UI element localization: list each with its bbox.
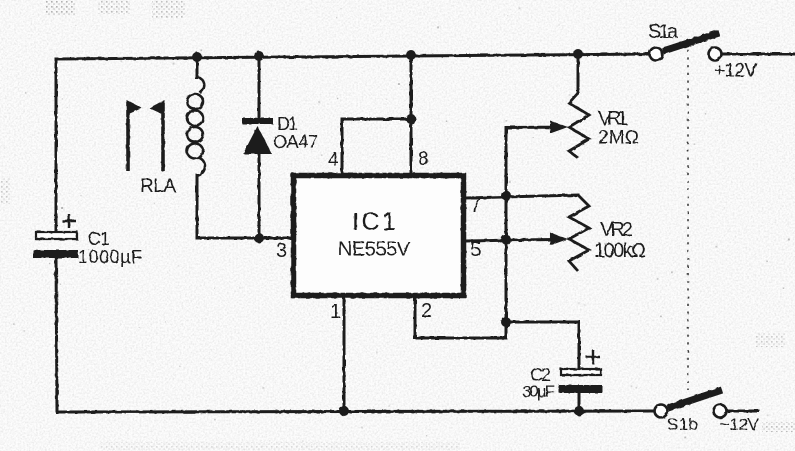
svg-text:−12V: −12V bbox=[720, 415, 760, 434]
svg-text:VR2: VR2 bbox=[600, 219, 633, 241]
svg-text:OA47: OA47 bbox=[273, 132, 318, 152]
svg-text:C1: C1 bbox=[88, 229, 110, 249]
svg-text:7: 7 bbox=[470, 195, 481, 217]
svg-text:+12V: +12V bbox=[714, 61, 757, 82]
svg-text:NE555V: NE555V bbox=[338, 239, 411, 261]
svg-text:2: 2 bbox=[421, 300, 432, 322]
svg-text:5: 5 bbox=[470, 239, 481, 261]
svg-text:2MΩ: 2MΩ bbox=[598, 128, 639, 149]
svg-text:1: 1 bbox=[330, 301, 341, 323]
svg-text:8: 8 bbox=[418, 149, 429, 170]
svg-text:3: 3 bbox=[276, 240, 287, 262]
svg-text:S1a: S1a bbox=[648, 21, 679, 43]
svg-text:IC1: IC1 bbox=[352, 208, 396, 236]
svg-text:4: 4 bbox=[328, 150, 339, 171]
svg-text:100kΩ: 100kΩ bbox=[594, 240, 646, 262]
svg-text:D1: D1 bbox=[277, 114, 298, 134]
svg-text:1000µF: 1000µF bbox=[78, 247, 142, 267]
svg-text:30µF: 30µF bbox=[522, 382, 555, 401]
svg-text:RLA: RLA bbox=[140, 176, 176, 197]
svg-text:S1b: S1b bbox=[667, 415, 698, 434]
